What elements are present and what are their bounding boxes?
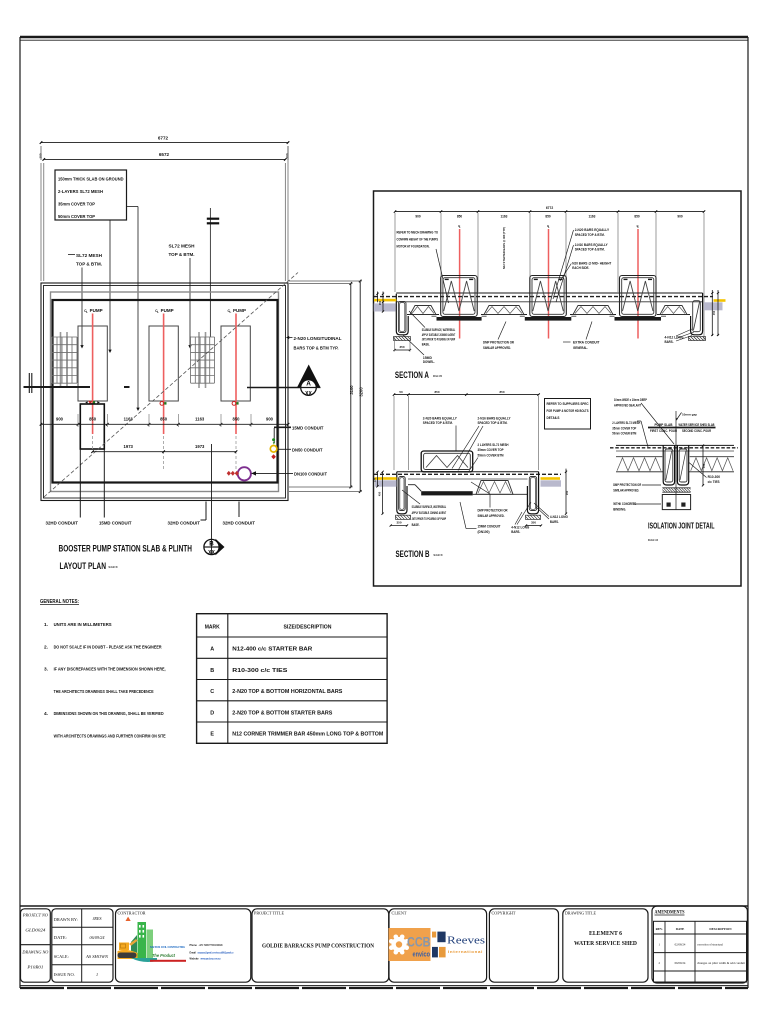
svg-text:Phone: Phone <box>190 944 198 947</box>
label 2-N16 bars (section B) <box>452 416 511 470</box>
svg-text:3.: 3. <box>44 667 48 673</box>
centreline extensions below plinths <box>92 436 94 449</box>
svg-text:50: 50 <box>399 390 403 394</box>
match line break symbol <box>207 208 219 337</box>
general note line <box>54 689 155 695</box>
svg-text:PROJECT TITLE: PROJECT TITLE <box>254 911 284 916</box>
label pump slab first pour <box>650 423 677 433</box>
svg-text:SCALE:: SCALE: <box>54 954 69 959</box>
svg-text:PROJECT NO: PROJECT NO <box>22 913 48 918</box>
svg-text:4-N12 LONG: 4-N12 LONG <box>550 515 568 519</box>
svg-text:DETAILS: DETAILS <box>547 416 560 420</box>
section A plinth block 2 <box>530 276 567 317</box>
svg-text:SCALE 1:50: SCALE 1:50 <box>109 565 118 569</box>
label 4-N12 long bars (section A) <box>665 329 695 344</box>
svg-text:B: B <box>209 540 214 547</box>
svg-text:NAFFKIS CIVIL CONTRACTING: NAFFKIS CIVIL CONTRACTING <box>150 945 185 949</box>
svg-text:15MD CONDUIT: 15MD CONDUIT <box>292 425 324 431</box>
svg-text:SL72 MESH: SL72 MESH <box>169 244 195 249</box>
pour labels divider bar <box>648 427 716 429</box>
section B right edge beam <box>527 472 538 514</box>
svg-text:correction of structural: correction of structural <box>697 943 723 947</box>
svg-text:850: 850 <box>89 417 97 422</box>
svg-text:CONTRACTOR: CONTRACTOR <box>118 911 146 916</box>
isolation joint centreline <box>675 411 677 510</box>
svg-text:TOP & BTM.: TOP & BTM. <box>169 252 195 257</box>
svg-text:GOLDIE BARRACKS PUMP CONSTRUCT: GOLDIE BARRACKS PUMP CONSTRUCTION <box>262 944 375 950</box>
contractor logo graphics <box>118 917 158 962</box>
svg-text:1163: 1163 <box>124 417 134 422</box>
DN100 conduit symbol (purple) <box>238 467 251 480</box>
svg-text:50mm COVER TOP: 50mm COVER TOP <box>58 214 95 219</box>
svg-text:32HD CONDUIT: 32HD CONDUIT <box>168 521 201 527</box>
section A plinth block 3 <box>620 276 657 317</box>
svg-text:350: 350 <box>396 521 401 525</box>
svg-text:WITH ARCHITECTS DRAWINGS AND F: WITH ARCHITECTS DRAWINGS AND FURTHER CON… <box>54 733 167 739</box>
svg-text:JRES: JRES <box>92 916 102 921</box>
svg-text:D: D <box>210 710 214 716</box>
general note line <box>44 667 166 673</box>
pump plinth P1 <box>78 326 107 401</box>
svg-text:GLD0024: GLD0024 <box>25 928 45 933</box>
table row mark D <box>210 710 333 716</box>
section A left edge beam <box>396 294 408 335</box>
svg-text:APPLY SUITABLE JOINING AGENT: APPLY SUITABLE JOINING AGENT <box>422 333 456 337</box>
svg-text:IF ANY DISCREPANCES WITH THE D: IF ANY DISCREPANCES WITH THE DIMENSION S… <box>54 667 167 673</box>
svg-text:c/c TIES: c/c TIES <box>708 480 721 484</box>
svg-text:REV.: REV. <box>656 927 663 931</box>
plan wall outer face <box>51 292 279 492</box>
section B bottom dims <box>390 521 542 527</box>
svg-text:02/08/24: 02/08/24 <box>675 943 686 947</box>
section A pump centreline 3 <box>637 224 640 339</box>
svg-text:900: 900 <box>266 417 274 422</box>
label 15MD dowel <box>403 335 435 364</box>
svg-text:850: 850 <box>634 215 640 219</box>
conduit pit below plinth 1 <box>80 404 104 449</box>
svg-text:SPACED TOP & BTM.: SPACED TOP & BTM. <box>478 421 508 425</box>
svg-text:15MD: 15MD <box>423 356 433 360</box>
svg-text:DATE:: DATE: <box>54 935 67 940</box>
isolation joint title <box>648 521 715 543</box>
svg-text:Website: Website <box>190 958 200 961</box>
label 2-N20 bars (section B) <box>423 416 457 450</box>
section B mesh dashed <box>374 473 561 475</box>
section A pump centreline 1 <box>458 224 461 339</box>
label DMP protection (section A) <box>483 322 514 350</box>
title cell: contractor <box>116 909 251 982</box>
isolation joint soffit zigzag left <box>616 457 663 472</box>
label 2 layers SL72 mesh (isolation joint) <box>612 421 648 447</box>
svg-text:DMP PROTECTION OR: DMP PROTECTION OR <box>483 340 514 344</box>
section B title <box>396 548 443 559</box>
svg-text:XX: XX <box>305 391 312 397</box>
amendments table <box>654 921 747 982</box>
svg-text:1163: 1163 <box>589 215 596 219</box>
pump plinth P3 <box>221 326 250 401</box>
svg-text:THE ARCHITECTS DRAWINGS SHALL: THE ARCHITECTS DRAWINGS SHALL TAKE PRECE… <box>54 689 155 695</box>
svg-text:150: 150 <box>372 477 376 482</box>
svg-text:BARS.: BARS. <box>550 520 559 524</box>
section A paving strip left (yellow) <box>374 299 396 302</box>
section B right dim <box>565 469 569 515</box>
svg-text:3100: 3100 <box>349 385 354 395</box>
section B soffit left <box>408 485 421 492</box>
svg-text:SCABBLE SURFACE, WATERSEAL: SCABBLE SURFACE, WATERSEAL <box>422 328 456 332</box>
svg-text:850: 850 <box>457 215 463 219</box>
svg-text:R10-300 c/c TIES: R10-300 c/c TIES <box>232 668 288 674</box>
SL72 mesh symbol M1 vertical bars <box>60 332 62 388</box>
svg-text:SPACED TOP & BTM.: SPACED TOP & BTM. <box>575 248 605 252</box>
section B paving strips (yellow) <box>375 477 397 480</box>
section A right edge beam <box>691 293 703 335</box>
svg-text:1163: 1163 <box>195 417 205 422</box>
amendment row 1 <box>658 943 723 947</box>
svg-text:N20 BARS @ MID- HEIGHT: N20 BARS @ MID- HEIGHT <box>572 261 612 265</box>
pump centreline P3 <box>235 314 237 435</box>
svg-text:www.pacbxy.com.au: www.pacbxy.com.au <box>201 958 221 961</box>
svg-text:+971 7908777XXX223396: +971 7908777XXX223396 <box>199 944 224 947</box>
svg-text:32HD CONDUIT: 32HD CONDUIT <box>46 521 79 527</box>
plan right dimension 3200 <box>289 280 363 493</box>
Reeves International logo <box>432 932 485 958</box>
svg-text:AS SHOWN: AS SHOWN <box>85 954 108 959</box>
svg-text:4-N12 LONG: 4-N12 LONG <box>665 336 684 340</box>
red conduit markers <box>227 471 239 476</box>
isolation joint right rib beam <box>677 445 688 485</box>
general notes heading <box>40 599 79 605</box>
pump centreline P1 <box>92 314 94 435</box>
svg-text:ELEMENT 6: ELEMENT 6 <box>589 931 622 937</box>
svg-text:LAYOUT PLAN: LAYOUT PLAN <box>60 560 107 571</box>
section A ground band left <box>374 303 396 311</box>
svg-text:850: 850 <box>160 417 168 422</box>
svg-text:BARS.: BARS. <box>665 340 674 344</box>
svg-text:SPACED TOP & BTM.: SPACED TOP & BTM. <box>575 233 605 237</box>
label 4-N12 long bars right (section B) <box>534 503 568 524</box>
svg-text:1973: 1973 <box>124 444 134 449</box>
section A slab top <box>396 292 702 294</box>
sections panel frame <box>374 191 742 586</box>
svg-text:xxxyyyzz@gmail.com/xxccdd86@gm: xxxyyyzz@gmail.com/xxccdd86@gmail.co <box>198 952 234 955</box>
svg-text:2-N16 BARS EQUALLY: 2-N16 BARS EQUALLY <box>478 416 511 420</box>
svg-text:BARS TOP & BTM TYP.: BARS TOP & BTM TYP. <box>294 346 339 351</box>
svg-text:L: L <box>230 310 232 314</box>
svg-text:International: International <box>448 949 483 954</box>
amendment row 2 <box>658 961 745 965</box>
svg-text:JNTS PRIOR TO POURING OF PUMP: JNTS PRIOR TO POURING OF PUMP <box>412 517 447 521</box>
svg-text:DN100 CONDUIT: DN100 CONDUIT <box>294 472 327 478</box>
section marker B/XX <box>204 539 225 556</box>
svg-text:450: 450 <box>702 463 706 468</box>
table row mark C <box>210 689 343 695</box>
svg-text:900: 900 <box>415 215 421 219</box>
svg-text:BASE.: BASE. <box>412 523 420 527</box>
label 2-N20 bars equally spaced <box>553 228 610 299</box>
label DN100 conduit <box>251 471 327 477</box>
svg-text:DATE: DATE <box>676 927 685 931</box>
section B plinth <box>421 451 473 472</box>
svg-text:450: 450 <box>377 491 381 496</box>
label SL72 MESH TOP & BTM (left) <box>68 253 102 349</box>
svg-text:PUMP: PUMP <box>161 308 174 313</box>
label sealant <box>614 398 674 444</box>
svg-text:350: 350 <box>399 345 404 349</box>
label 2-N16 bars equally spaced <box>556 243 608 302</box>
isolation joint dpm strip <box>662 488 690 492</box>
section B left dims <box>372 471 383 515</box>
svg-text:B: B <box>210 668 214 674</box>
svg-text:N12 CORNER TRIMMER BAR 450mm L: N12 CORNER TRIMMER BAR 450mm LONG TOP & … <box>232 732 383 738</box>
svg-text:REFER TO MECH DRAWING TO: REFER TO MECH DRAWING TO <box>397 230 439 235</box>
svg-text:FOR PUMP & MOTOR HD BOLTS: FOR PUMP & MOTOR HD BOLTS <box>547 409 589 413</box>
svg-text:WATER SERVICE SHED: WATER SERVICE SHED <box>574 941 638 947</box>
svg-text:C: C <box>210 689 214 695</box>
svg-text:BOOSTER PUMP STATION SLAB & PL: BOOSTER PUMP STATION SLAB & PLINTH <box>59 543 193 554</box>
svg-text:35mm COVER TOP: 35mm COVER TOP <box>612 426 636 430</box>
CCB envico logo <box>389 928 431 961</box>
svg-text:2-N20 TOP & BOTTOM HORIZONTAL: 2-N20 TOP & BOTTOM HORIZONTAL BARS <box>232 689 343 695</box>
svg-text:GENERAL.: GENERAL. <box>573 346 588 350</box>
general note line <box>44 711 164 717</box>
svg-text:SIMILAR APPROVED.: SIMILAR APPROVED. <box>613 489 639 493</box>
svg-text:The Product: The Product <box>152 953 175 959</box>
svg-text:CCB: CCB <box>407 934 431 950</box>
diagonal reference dashed line <box>44 273 298 498</box>
svg-text:DMP PROTECTION OR: DMP PROTECTION OR <box>478 508 508 512</box>
svg-text:850: 850 <box>545 215 551 219</box>
label CL PUMP 1 <box>84 308 103 314</box>
svg-text:1973: 1973 <box>195 444 205 449</box>
label water service shed slab second pour <box>679 423 715 433</box>
svg-text:envico: envico <box>413 952 431 959</box>
isolation joint slab top <box>616 444 734 446</box>
svg-text:BASE.: BASE. <box>422 342 430 346</box>
svg-text:900: 900 <box>677 215 683 219</box>
section marker A/XX <box>297 365 321 398</box>
label DMP protection (isolation joint) <box>613 483 661 493</box>
svg-text:100: 100 <box>38 153 42 158</box>
svg-text:2-N20 BARS EQUALLY: 2-N20 BARS EQUALLY <box>423 416 457 420</box>
svg-text:1163: 1163 <box>501 215 508 219</box>
label scabble surface (section B) <box>402 490 447 527</box>
svg-text:CLIENT: CLIENT <box>392 911 407 916</box>
label R10-300 ties <box>689 463 720 485</box>
section A paving strip right (yellow) <box>714 299 726 302</box>
svg-text:1: 1 <box>96 972 98 977</box>
pump centreline P2 <box>163 314 165 435</box>
section A left dim <box>376 292 384 313</box>
general note line <box>54 733 167 739</box>
svg-text:APPLY SUITABLE JOINING AGENT: APPLY SUITABLE JOINING AGENT <box>412 511 447 515</box>
svg-text:SECTION B: SECTION B <box>396 548 430 559</box>
plan wall inner face <box>53 300 278 483</box>
svg-text:SIMILAR APPROVED.: SIMILAR APPROVED. <box>483 346 511 350</box>
section A top dimension line <box>394 206 705 340</box>
svg-text:MOTOR AT FOUNDATION.: MOTOR AT FOUNDATION. <box>397 244 430 249</box>
svg-text:ISSUE NO.: ISSUE NO. <box>54 972 75 977</box>
svg-text:15MM CONDUIT: 15MM CONDUIT <box>478 525 502 529</box>
title cell: drawn by / date / scale / issue <box>52 909 113 982</box>
isolation joint left rib beam <box>663 445 674 485</box>
isolation joint right dim <box>702 445 706 487</box>
plan bottom dimension row <box>40 414 290 427</box>
svg-text:4.: 4. <box>44 711 48 717</box>
svg-text:N12-400 c/c STARTER BAR: N12-400 c/c STARTER BAR <box>232 647 312 653</box>
svg-text:2 LAYERS SL72 MESH: 2 LAYERS SL72 MESH <box>612 421 640 425</box>
plan slab outer edge (double line) <box>41 283 288 501</box>
SL72 mesh symbol M1 <box>52 337 77 383</box>
svg-text:R10-300: R10-300 <box>708 475 721 479</box>
note box leader <box>108 207 139 412</box>
slab note box <box>55 170 127 220</box>
section B left edge beam <box>397 472 407 514</box>
plan dimension 1973/1973 <box>91 444 237 453</box>
conduit marker pump 2 <box>160 402 167 406</box>
svg-text:APPROVED SEALANT: APPROVED SEALANT <box>614 403 642 407</box>
section A right dim <box>711 290 719 336</box>
svg-text:WATER SERVICE SHED SLAB: WATER SERVICE SHED SLAB <box>679 423 715 427</box>
svg-text:06/09/24: 06/09/24 <box>675 961 686 965</box>
label DN50 conduit <box>278 447 323 453</box>
section A cut line <box>24 373 301 393</box>
svg-text:ISOLATION JOINT DETAIL: ISOLATION JOINT DETAIL <box>648 521 715 531</box>
svg-text:2.: 2. <box>44 644 48 650</box>
label 15MD conduit (right) <box>273 425 324 444</box>
svg-text:changes on plint width & add c: changes on plint width & add conduit <box>697 961 745 965</box>
svg-text:1.: 1. <box>44 622 48 628</box>
label 4-N12 long bars left (section B) <box>511 502 531 534</box>
section B thickening hatch under plinth <box>421 491 473 495</box>
svg-text:2-N20 BARS EQUALLY: 2-N20 BARS EQUALLY <box>575 228 610 232</box>
svg-text:6772: 6772 <box>546 206 554 210</box>
svg-text:REFER TO SUPPLIERS SPEC: REFER TO SUPPLIERS SPEC <box>547 402 589 406</box>
svg-text:DESCRIPTION: DESCRIPTION <box>709 927 732 931</box>
svg-text:450: 450 <box>712 310 716 315</box>
svg-text:SIMILAR APPROVED.: SIMILAR APPROVED. <box>478 514 505 518</box>
bar mark schedule table <box>197 614 388 744</box>
svg-text:2-N16 BARS EQUALLY: 2-N16 BARS EQUALLY <box>575 243 609 247</box>
boxed note refer to suppliers spec <box>545 399 591 430</box>
svg-text:DRAWN BY:: DRAWN BY: <box>54 917 78 922</box>
section A thickening hatch under plinths <box>437 317 482 321</box>
section A blinding pads <box>394 337 706 341</box>
svg-text:150: 150 <box>565 490 569 495</box>
isolation joint mesh dashed <box>610 447 738 449</box>
title block top line <box>20 905 748 907</box>
svg-text:JNTS PRIOR TO POURING OF PUMP: JNTS PRIOR TO POURING OF PUMP <box>422 338 456 342</box>
section B ground bands <box>375 480 397 486</box>
label 2-N20 longitudinal bars <box>286 336 342 351</box>
title cell: amendments <box>652 906 747 983</box>
svg-text:2-LAYERS SL72 MESH: 2-LAYERS SL72 MESH <box>58 189 104 194</box>
svg-text:06/09/24: 06/09/24 <box>90 935 105 940</box>
svg-text:DO NOT SCALE IF IN DOUBT - PLE: DO NOT SCALE IF IN DOUBT - PLEASE ASK TH… <box>54 644 162 650</box>
label scabble surface (section A) <box>409 311 456 346</box>
section B slab top <box>397 471 539 473</box>
svg-text:4-N12 LONG: 4-N12 LONG <box>511 525 529 529</box>
svg-text:6572: 6572 <box>159 152 170 157</box>
svg-text:DMP PROTECTION OR: DMP PROTECTION OR <box>613 483 641 487</box>
section A pump centreline 2 <box>547 224 550 339</box>
svg-text:L: L <box>157 310 159 314</box>
svg-text:SPACED TOP & BTM.: SPACED TOP & BTM. <box>423 421 453 425</box>
bottom conduit leaders <box>80 449 239 520</box>
svg-text:15MD CONDUIT: 15MD CONDUIT <box>99 521 132 527</box>
label SL72 MESH TOP & BTM (centre) <box>169 244 195 349</box>
section B cut line <box>211 444 213 555</box>
svg-text:(DN100): (DN100) <box>478 530 491 534</box>
isolation joint soffit zigzag right <box>689 457 734 472</box>
table row mark E <box>210 732 383 738</box>
title cell: copyright <box>489 909 558 982</box>
svg-text:6772: 6772 <box>158 136 169 141</box>
svg-text:32HD CONDUIT: 32HD CONDUIT <box>223 521 256 527</box>
plan overall dimension 6772 <box>40 136 290 161</box>
svg-text:DRAWING TITLE: DRAWING TITLE <box>565 911 596 916</box>
svg-text:850: 850 <box>434 390 439 394</box>
contractor logo text <box>150 944 234 962</box>
section A slab soffit and void formers <box>407 306 690 315</box>
SL72 mesh symbol M2 <box>191 337 215 383</box>
section B blinding pads <box>396 515 541 519</box>
plan title <box>59 543 193 572</box>
label CL PUMP 3 <box>228 308 247 314</box>
section A slab mid line <box>396 301 702 303</box>
table row mark A <box>210 647 312 653</box>
label 2 layers SL72 mesh (section B) <box>468 443 509 473</box>
isolation joint slab line <box>616 450 734 452</box>
svg-text:3200: 3200 <box>358 387 363 397</box>
svg-text:SCALE 1:50: SCALE 1:50 <box>434 553 443 557</box>
svg-text:N12 STARTER BARS @ 400 (TYP): N12 STARTER BARS @ 400 (TYP) <box>502 227 506 269</box>
title cell: client <box>389 909 487 982</box>
svg-text:900: 900 <box>56 417 64 422</box>
conduit marker pump 3 <box>232 402 239 406</box>
svg-text:2-N20 LONGITUDINAL: 2-N20 LONGITUDINAL <box>294 336 342 341</box>
label 15mm conduit (section B) <box>460 502 501 534</box>
svg-text:XX: XX <box>208 550 215 556</box>
svg-text:COPYRIGHT: COPYRIGHT <box>492 911 516 916</box>
SL72 mesh symbol M2 vertical bars <box>198 332 200 388</box>
plan right dimension 3100 <box>289 282 354 488</box>
title cell: project no / drawing no <box>21 909 51 982</box>
svg-text:DOWEL.: DOWEL. <box>423 360 435 364</box>
svg-text:L: L <box>86 310 88 314</box>
svg-text:SCALE 1:50: SCALE 1:50 <box>433 374 442 378</box>
svg-text:A: A <box>210 647 214 653</box>
svg-text:35mm COVER TOP: 35mm COVER TOP <box>478 448 504 452</box>
conduit symbol stack (green/yellow/red) <box>270 438 277 459</box>
svg-text:Email: Email <box>190 952 197 955</box>
svg-text:SECTION A: SECTION A <box>395 369 429 380</box>
title cell: drawing title <box>563 909 648 982</box>
svg-text:SL72 MESH: SL72 MESH <box>76 253 102 258</box>
label N20 bars at mid-height <box>560 261 612 281</box>
svg-text:E: E <box>210 732 214 738</box>
section A mesh layer (dashed) <box>374 296 713 298</box>
conduit marker pump 1 (red cross, green) <box>85 401 100 404</box>
label DMP protection (section B) <box>471 482 508 518</box>
general note line <box>44 644 162 650</box>
svg-text:850: 850 <box>233 417 241 422</box>
section B top dimension <box>393 390 540 470</box>
svg-text:2 LAYERS SL72 MESH: 2 LAYERS SL72 MESH <box>478 443 509 447</box>
note refer to mech drawing <box>397 230 449 304</box>
svg-text:GENERAL NOTES:: GENERAL NOTES: <box>40 599 79 605</box>
svg-text:35mm COVER TOP: 35mm COVER TOP <box>58 202 95 207</box>
general note line <box>44 622 112 628</box>
